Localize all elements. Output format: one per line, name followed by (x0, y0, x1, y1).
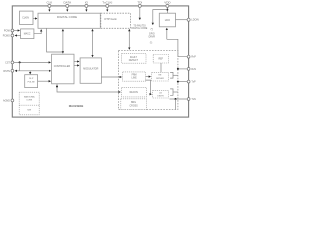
svg-text:AGND: AGND (3, 99, 10, 102)
svg-text:PCMI: PCMI (4, 30, 10, 33)
wire modulator to frame sync (101, 76, 121, 78)
svg-text:DRIVER: DRIVER (156, 78, 164, 80)
interface block MACC (21, 29, 34, 39)
wire VDD branch to GPIO driver (153, 10, 168, 25)
controller U2 (52, 54, 74, 84)
svg-text:MODULATOR: MODULATOR (83, 67, 98, 70)
svg-text:RxP: RxP (191, 56, 196, 59)
svg-text:PCMO: PCMO (3, 34, 10, 37)
outer chip border (12, 6, 188, 117)
svg-text:MAX24B1B: MAX24B1B (69, 104, 83, 108)
svg-text:DRVR: DRVR (149, 37, 156, 39)
wire core-controller double arrow (62, 29, 64, 53)
svg-text:MACC: MACC (24, 33, 31, 36)
pin RSTN (left) (3, 69, 50, 73)
pin IO (top) (85, 0, 89, 11)
svg-text:RxN: RxN (191, 68, 196, 71)
fault detect block (122, 54, 146, 64)
svg-text:DIGITAL CORE: DIGITAL CORE (131, 27, 147, 30)
svg-text:CONTROLLER: CONTROLLER (54, 65, 71, 68)
svg-text:TDI: TDI (137, 0, 142, 4)
OTP bank (dashed) (101, 13, 131, 28)
svg-text:TxP: TxP (191, 81, 196, 84)
svg-text:DETECT: DETECT (129, 60, 139, 62)
svg-text:CORE: CORE (26, 100, 33, 102)
node CST junction (19, 61, 21, 63)
svg-text:RECON: RECON (130, 92, 139, 94)
wire TxP tap (178, 81, 187, 83)
svg-text:REF: REF (158, 59, 163, 61)
wire into LDO bottom (166, 28, 168, 39)
svg-text:(*): (*) (151, 29, 154, 31)
wire controller to recovery (long) (57, 84, 120, 92)
node TxP junction (177, 81, 179, 83)
wire TxN tap (170, 98, 188, 100)
pin CST (left) (5, 61, 50, 65)
digital core U1 (38, 13, 100, 28)
TX driver block (152, 72, 169, 81)
wire core-modulator double arrow (92, 29, 94, 56)
svg-text:DINTR: DINTR (157, 95, 164, 97)
wire RxN tap (178, 68, 187, 70)
wire DLP to controller (38, 80, 51, 82)
wire controller to modulator 2 (74, 64, 79, 66)
svg-text:LDO: LDO (165, 18, 170, 22)
node below controller (56, 86, 58, 88)
reference block REF (153, 55, 168, 64)
svg-text:LDOIN: LDOIN (191, 19, 199, 22)
sangoma core block (dashed) (19, 92, 39, 115)
svg-text:FAULT: FAULT (130, 56, 138, 59)
coupling bracket 1 (170, 72, 178, 78)
svg-text:PULSE: PULSE (28, 82, 36, 84)
pin PCMO (left) (3, 34, 21, 37)
svg-text:CLKIN: CLKIN (22, 18, 29, 20)
node TxN junction (175, 98, 177, 100)
svg-text:(*): (*) (150, 42, 153, 44)
loopback detect block (153, 91, 169, 98)
node VDD junction (166, 9, 168, 11)
node RxN junction (177, 68, 179, 70)
svg-text:CLK: CLK (46, 0, 52, 4)
svg-text:TxCLKI: TxCLKI (102, 0, 112, 4)
svg-text:LINE: LINE (132, 78, 138, 80)
clock cross block (121, 99, 147, 110)
wire MACC to digital core (34, 30, 41, 34)
pin RxN (right) (187, 68, 196, 71)
svg-text:FRM: FRM (132, 74, 137, 76)
svg-text:OTP bank: OTP bank (104, 17, 117, 21)
wire LDO rail to RxP (167, 39, 187, 56)
wire LDO to LDOIN pin (176, 19, 188, 21)
pin CLK (top) (46, 0, 52, 11)
wire core to controller (left branch) (47, 28, 63, 52)
svg-text:VDD: VDD (164, 0, 171, 4)
svg-text:DLP: DLP (29, 78, 34, 80)
wire frame sync to LB block (146, 80, 152, 94)
svg-text:BRG: BRG (131, 102, 136, 104)
wire controller to modulator 1 (74, 61, 79, 63)
wire frame sync to TX driver (146, 76, 151, 78)
analog front end (dashed container) (118, 50, 177, 109)
wire REF to driver (160, 63, 162, 72)
pin LDOIN (right) (187, 18, 199, 22)
svg-text:S/W: S/W (27, 110, 31, 112)
pin DATA (top) (64, 0, 72, 11)
svg-text:IO: IO (85, 0, 89, 4)
pin TxN (right) (187, 98, 196, 101)
pin TxCLKI (top) (102, 0, 112, 11)
frame sync block (123, 72, 146, 81)
svg-text:SANGOMA: SANGOMA (24, 96, 35, 99)
svg-text:GPIO: GPIO (149, 34, 155, 36)
svg-text:CST: CST (5, 62, 10, 65)
oscillator CLKIN (20, 11, 34, 24)
pin TxP (right) (187, 80, 196, 83)
svg-text:CROSS: CROSS (130, 105, 139, 107)
wire CLKIN to digital core (33, 18, 37, 20)
wire junction down (19, 62, 21, 70)
modulator U3 (80, 58, 101, 83)
pin RxP (right) (187, 55, 196, 58)
coupling bracket 2 (170, 89, 178, 95)
pin PCMI (left) (4, 29, 20, 32)
pin AGND (left) (3, 99, 14, 102)
LDO U4 (159, 13, 175, 27)
wire RSTN line into DLP box (29, 71, 31, 74)
svg-text:RSTN: RSTN (3, 70, 10, 73)
svg-text:TxN: TxN (191, 98, 196, 101)
wire TxN junction down (175, 99, 177, 110)
pulse shaper block DLP (25, 75, 38, 88)
svg-text:DATA: DATA (64, 0, 72, 4)
recovery block (122, 87, 147, 97)
wire OTP-analog double arrow (128, 29, 130, 49)
pin VDD (top) (164, 0, 171, 13)
svg-text:DIGITAL CORE: DIGITAL CORE (57, 15, 77, 19)
pin TDI (top) (137, 0, 142, 19)
